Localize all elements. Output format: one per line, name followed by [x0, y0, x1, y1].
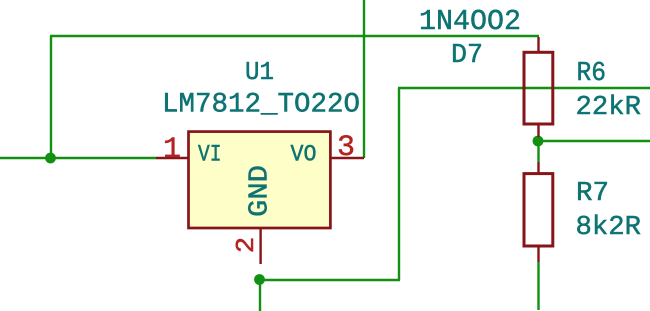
wire: [398, 88, 400, 280]
svg-text:U1: U1: [245, 57, 274, 87]
wire: [260, 279, 400, 281]
svg-text:R6: R6: [577, 59, 607, 89]
wire: [50, 35, 539, 37]
wire: [537, 136, 539, 162]
junction: [254, 274, 265, 285]
svg-text:3: 3: [337, 131, 355, 165]
resistor R6: [524, 37, 553, 137]
svg-text:22kR: 22kR: [576, 93, 642, 123]
junction: [533, 136, 544, 147]
svg-text:1N4OO2: 1N4OO2: [419, 5, 521, 38]
pin 1: [156, 157, 189, 159]
pin 3: [330, 157, 364, 159]
wire: [50, 36, 52, 158]
svg-text:VO: VO: [291, 142, 317, 168]
wire: [259, 280, 261, 311]
svg-text:R7: R7: [576, 179, 609, 209]
regulator U1 LM7812_TO220: [162, 57, 360, 228]
svg-text:GND: GND: [246, 165, 276, 217]
svg-text:VI: VI: [198, 142, 222, 168]
svg-text:LM7812_TO22O: LM7812_TO22O: [162, 90, 360, 121]
svg-text:D7: D7: [451, 41, 483, 71]
wire: [537, 262, 539, 310]
resistor R7: [524, 162, 553, 262]
svg-text:1: 1: [163, 133, 181, 167]
wire: [539, 140, 650, 142]
junction: [45, 153, 56, 164]
svg-text:2: 2: [231, 237, 261, 254]
pin 2: [259, 228, 261, 264]
svg-text:8k2R: 8k2R: [576, 213, 642, 243]
wire: [0, 157, 156, 159]
wire: [363, 0, 365, 158]
wire: [398, 87, 650, 89]
